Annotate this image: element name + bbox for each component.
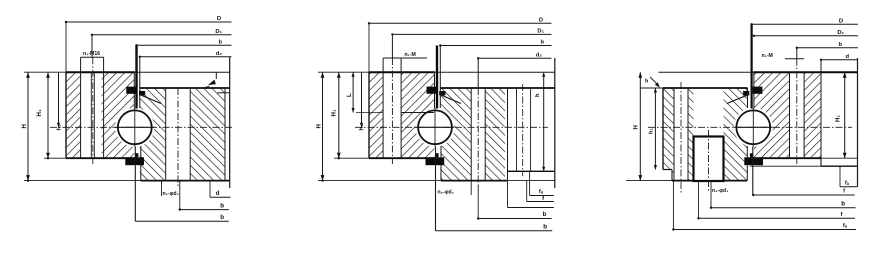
contact arrow upper tip	[743, 91, 749, 95]
contact arrow upper tip	[139, 91, 145, 95]
hole edge	[673, 88, 675, 181]
ext lower bottom	[318, 180, 441, 182]
rim line a	[516, 88, 518, 171]
junction dot	[820, 59, 822, 61]
svg-text:n₂-φd₂: n₂-φd₂	[438, 190, 455, 196]
ext left top	[640, 87, 663, 89]
dim H line	[639, 72, 641, 180]
contact arrow lower nub	[750, 153, 753, 157]
h leader	[203, 86, 210, 88]
dim d line	[210, 196, 231, 198]
dim fa line	[530, 195, 554, 197]
b ext	[477, 186, 479, 219]
inner ring top face	[140, 87, 230, 89]
svg-text:H₁: H₁	[835, 115, 842, 122]
junction dot b1	[477, 217, 479, 219]
junction dot	[439, 44, 441, 46]
svg-text:L: L	[346, 93, 353, 97]
outer ring section right band	[401, 72, 434, 158]
callout ext2	[179, 181, 181, 210]
svg-text:h: h	[535, 93, 541, 97]
dim d line	[821, 59, 858, 61]
dim drop to hole center	[91, 35, 93, 58]
dim d ext	[209, 181, 211, 198]
hole counterbore edge	[80, 57, 82, 158]
h leader	[650, 77, 659, 86]
rim line b	[530, 88, 532, 171]
hole counterbore edge	[103, 57, 105, 158]
dim D1 line	[392, 33, 551, 35]
hole centerline	[177, 88, 179, 186]
raceway dim line lower	[752, 147, 754, 196]
inner ring section left band	[140, 88, 166, 181]
ext3	[507, 181, 509, 208]
hole centerline	[92, 57, 94, 164]
lower split right	[440, 146, 442, 181]
dim D line	[66, 21, 232, 23]
h ext edge	[215, 72, 217, 79]
dim b line	[137, 44, 232, 46]
outer ring section left band	[369, 72, 383, 158]
junction dot fa	[672, 228, 674, 230]
rim line / dim drop	[820, 60, 822, 158]
dim drop hole center 2	[477, 58, 479, 88]
dim H1 line	[47, 72, 49, 158]
svg-text:n₂-φd₂: n₂-φd₂	[163, 191, 180, 197]
dim fa line	[840, 186, 858, 188]
contact diagonal upper	[139, 94, 161, 103]
junction dot	[139, 56, 141, 58]
left ring band 2	[688, 88, 694, 181]
inner ring right edge	[554, 58, 556, 188]
dim D1 line	[754, 35, 858, 37]
spigot step edge	[507, 88, 509, 181]
dim b line2	[135, 220, 229, 222]
dim D1 line	[92, 34, 232, 36]
svg-text:H: H	[316, 124, 323, 129]
ball v-centerline	[134, 108, 136, 147]
svg-text:H: H	[633, 125, 640, 130]
outer ring bottom face	[369, 157, 435, 159]
hole edge	[803, 72, 805, 158]
svg-text:d: d	[216, 190, 220, 197]
svg-text:b: b	[218, 40, 222, 46]
junction dot	[750, 23, 752, 25]
junction dot	[796, 47, 798, 49]
dim d2 line	[478, 57, 551, 59]
raceway dim line lower	[134, 147, 136, 222]
right ring band 1	[754, 72, 790, 158]
dim H line	[322, 72, 324, 180]
dim fa line2	[673, 229, 856, 231]
raceway dim line upper	[750, 24, 752, 108]
ball	[418, 110, 452, 144]
outer ring section left band	[66, 72, 81, 158]
junction dot b1	[179, 208, 181, 210]
ext bottom	[626, 180, 672, 182]
upper split right	[753, 72, 755, 108]
lower split right	[140, 146, 142, 181]
dim f line	[527, 201, 554, 203]
hole centerline	[680, 82, 682, 194]
junction dot b2	[697, 217, 699, 219]
dim H1 line	[338, 72, 340, 158]
dim b line	[180, 209, 229, 211]
dim b line	[440, 45, 551, 47]
hole centerline	[796, 59, 798, 164]
dim drop hole center	[391, 34, 393, 58]
raceway dim line upper	[135, 45, 137, 108]
svg-text:H₁: H₁	[36, 109, 43, 116]
svg-text:n₁-M16: n₁-M16	[83, 51, 100, 57]
svg-text:D: D	[217, 16, 221, 22]
right ring bottom face	[753, 157, 821, 159]
notch face	[663, 169, 672, 171]
outer ring left edge	[65, 72, 67, 158]
grease hole centerline	[522, 84, 524, 176]
lower split left	[746, 146, 748, 181]
inner rim line	[224, 88, 226, 181]
svg-text:b: b	[220, 202, 224, 209]
dim b line	[711, 207, 856, 209]
right ring band 2	[804, 72, 821, 158]
hole edge	[189, 88, 191, 181]
bearing axis centerline	[355, 126, 548, 128]
inner ring bottom face	[141, 180, 230, 182]
svg-text:d₂: d₂	[216, 51, 223, 57]
hole callout cap	[383, 57, 427, 59]
hole centerline 2	[477, 88, 479, 186]
svg-text:n₁-M: n₁-M	[762, 53, 773, 59]
junction dot	[135, 44, 137, 46]
svg-text:b: b	[220, 214, 224, 221]
right ring right edge	[857, 58, 859, 187]
svg-text:d: d	[845, 54, 849, 60]
svg-text:D₁: D₁	[215, 29, 222, 35]
left ring band 3	[724, 88, 748, 181]
L ext line	[356, 112, 383, 114]
svg-text:d₂: d₂	[536, 53, 543, 59]
svg-text:b: b	[838, 42, 842, 48]
h lower ext line	[217, 92, 229, 94]
dim D ext	[368, 23, 370, 72]
outer ring section right band	[102, 72, 135, 158]
junction dot	[368, 22, 370, 24]
dim b line	[478, 218, 551, 220]
callout ext	[161, 181, 163, 196]
dim D line	[752, 23, 858, 25]
callout ext left	[470, 181, 472, 195]
svg-text:H: H	[21, 124, 28, 129]
hole edge	[687, 88, 689, 181]
h arrow	[655, 82, 660, 87]
ball h-centerline	[416, 126, 455, 128]
dim h1 line	[361, 72, 363, 127]
left ring band 1	[663, 88, 674, 181]
junction dot f	[752, 194, 754, 196]
contact arrow lower bar	[426, 157, 445, 165]
top face extension left	[659, 71, 754, 73]
dim D ext	[65, 22, 67, 72]
ext top face left	[318, 71, 369, 73]
ext bottom left	[334, 157, 369, 159]
dim b line	[797, 47, 858, 49]
raceway dim line lower	[435, 147, 437, 231]
b ext	[710, 181, 712, 208]
svg-text:h₁: h₁	[649, 127, 655, 134]
junction dot	[477, 57, 479, 59]
inner ring bottom face	[441, 180, 508, 182]
inner ring band 1	[440, 88, 471, 181]
notch clearing	[656, 170, 672, 181]
outer ring top face	[66, 71, 135, 73]
junction dot b	[710, 207, 712, 209]
dim H line	[27, 72, 29, 180]
dim d2 line	[140, 56, 232, 58]
svg-text:D: D	[839, 19, 843, 25]
hole callout cap	[785, 58, 804, 60]
dim h1 line	[58, 72, 60, 127]
spigot step face	[508, 170, 555, 172]
ball h-centerline	[734, 126, 773, 128]
b ext2	[698, 181, 700, 218]
junction dot	[753, 35, 755, 37]
outer ring top face	[369, 71, 435, 73]
rim step edge	[820, 158, 822, 166]
dim H2 line	[654, 88, 656, 170]
f ext	[526, 181, 528, 202]
notch edge	[671, 170, 673, 181]
hole edge	[382, 58, 384, 158]
rim bottom face	[821, 165, 858, 167]
dim D line	[369, 22, 552, 24]
right ring top face	[753, 71, 857, 73]
hole edge	[165, 88, 167, 181]
contact arrow lower nub	[435, 153, 438, 157]
dim b line2	[699, 217, 856, 219]
bearing axis centerline	[648, 126, 852, 128]
dim f line	[753, 194, 855, 196]
h arrow	[208, 80, 216, 85]
fa ext	[529, 172, 531, 196]
hole thread line	[90, 72, 92, 158]
ball	[118, 110, 152, 144]
top face extension right	[135, 71, 230, 73]
dim H1 line	[844, 72, 846, 158]
rim bottom ext	[750, 165, 821, 167]
hole callout cap	[81, 56, 104, 58]
svg-text:D: D	[539, 18, 543, 24]
contact diagonal upper	[439, 94, 461, 103]
svg-text:h₁: h₁	[359, 124, 365, 131]
ext bottom right	[508, 180, 555, 182]
left ring left edge	[662, 88, 664, 170]
raceway pocket	[115, 108, 154, 147]
svg-text:n₃-φd₃: n₃-φd₃	[712, 188, 729, 194]
bearing axis centerline	[50, 126, 232, 128]
ball h-centerline	[115, 126, 154, 128]
outer ring left edge	[368, 72, 370, 158]
contact arrow upper bar	[427, 87, 437, 94]
svg-text:n₁-M: n₁-M	[405, 52, 416, 58]
inner ring section right band	[190, 88, 225, 181]
svg-text:h₁: h₁	[57, 124, 63, 131]
svg-text:f: f	[542, 196, 544, 202]
svg-text:H₁: H₁	[331, 109, 338, 116]
svg-text:f: f	[843, 189, 845, 195]
hole edge	[400, 58, 402, 158]
contact arrow lower nub	[135, 153, 138, 157]
inner ring top face	[440, 87, 555, 89]
upper split left	[747, 88, 749, 108]
ball v-centerline	[434, 108, 436, 147]
junction dot	[91, 34, 93, 36]
contact diagonal upper	[727, 94, 749, 103]
junction dot	[65, 21, 67, 23]
dim h2 line	[543, 74, 545, 171]
raceway dim line upper	[436, 46, 438, 109]
hole edge	[470, 88, 472, 181]
dim b line2	[436, 230, 553, 232]
contact arrow lower bar	[744, 157, 763, 165]
hole centerline	[391, 58, 393, 164]
ext bottom left	[44, 157, 66, 159]
svg-text:f: f	[841, 212, 843, 218]
junction dot	[391, 33, 393, 35]
lower ring split / dim drop	[139, 57, 141, 108]
left ring top face	[663, 87, 748, 89]
upper split	[434, 72, 436, 108]
ext top face left	[24, 71, 66, 73]
dim line3	[508, 207, 554, 209]
raceway pocket	[415, 108, 454, 147]
fa ext2	[672, 181, 674, 230]
contact arrow upper tip	[439, 91, 445, 95]
ext bottom face	[821, 157, 858, 159]
loading plug	[694, 137, 724, 182]
hole edge	[789, 72, 791, 158]
fa ext	[839, 166, 841, 187]
contact arrow lower bar	[125, 157, 144, 165]
dim L line	[352, 72, 354, 112]
svg-text:D₁: D₁	[537, 29, 544, 35]
relief step line	[401, 112, 434, 114]
plug centerline	[708, 130, 710, 192]
hole thread line2	[93, 72, 95, 158]
outer ring bottom face	[66, 157, 135, 159]
left ring bottom face	[672, 180, 747, 182]
lower split / dim drop	[439, 46, 441, 109]
contact arrow upper bar	[753, 87, 763, 94]
raceway pocket	[734, 108, 773, 147]
svg-text:b: b	[543, 211, 547, 218]
hole edge	[484, 88, 486, 181]
dim drop hole center	[796, 48, 798, 59]
ball	[736, 110, 770, 144]
inner ring right edge	[229, 57, 231, 188]
svg-text:D₁: D₁	[837, 30, 844, 36]
ball v-centerline	[752, 108, 754, 147]
svg-text:b: b	[540, 40, 544, 46]
contact arrow upper bar	[126, 87, 136, 94]
ext lower bottom	[24, 180, 141, 182]
svg-text:b: b	[841, 200, 845, 207]
top face extension	[435, 71, 555, 73]
svg-text:b: b	[543, 223, 547, 230]
upper ring split	[133, 72, 135, 108]
inner ring band 2	[485, 88, 505, 181]
